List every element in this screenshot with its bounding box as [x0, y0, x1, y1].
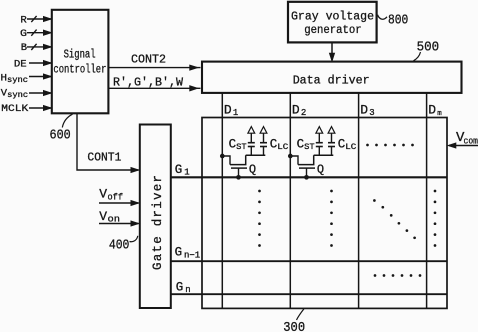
svg-text:Q: Q	[317, 163, 324, 177]
svg-text:C: C	[270, 137, 278, 151]
svg-text:Gate driver: Gate driver	[151, 175, 165, 270]
input label Von	[99, 209, 120, 225]
svg-text:DE: DE	[14, 59, 27, 71]
wire: pixel 2 source connection	[290, 156, 298, 165]
transistor Q (pixel 1) channel	[230, 155, 246, 164]
capacitor CLC (pixel 2)	[328, 133, 335, 155]
wire: data line D3	[358, 93, 360, 308]
svg-text:C: C	[297, 137, 305, 151]
label Dm	[428, 103, 442, 119]
label D3	[360, 103, 374, 119]
wire CONT1: signal controller to gate driver	[77, 114, 139, 173]
block: gray voltage generator U800	[288, 2, 377, 43]
transistor Q (pixel 2) gate electrode	[299, 167, 315, 169]
svg-text:G: G	[175, 246, 183, 260]
ellipsis: vertical dots column right of Dm	[434, 190, 437, 247]
ellipsis: vertical dots column 2	[330, 190, 333, 247]
label D1	[224, 103, 238, 119]
svg-text:LC: LC	[277, 142, 288, 152]
wire: pixel 2 storage bus	[314, 154, 334, 156]
wire: Vcom arrow into panel	[449, 143, 478, 147]
label CST (pixel 1)	[229, 137, 247, 152]
common electrode arrow above CST (pixel 2)	[316, 127, 323, 134]
svg-text:G: G	[175, 163, 183, 177]
wire: G input arrow into signal controller	[27, 31, 51, 35]
svg-text:800: 800	[388, 14, 408, 29]
svg-text:D: D	[292, 103, 300, 118]
wire: Hsync input arrow into signal controller	[29, 74, 51, 78]
label 400 with leader to gate driver	[109, 236, 138, 254]
block: LCD panel 300	[202, 118, 447, 309]
svg-text:C: C	[229, 137, 237, 151]
transistor Q (pixel 1) gate electrode	[231, 167, 247, 169]
wire: DE input arrow into signal controller	[29, 61, 51, 65]
svg-text:CONT2: CONT2	[131, 53, 166, 67]
svg-text:ST: ST	[236, 142, 247, 152]
wire CONT2: signal controller to data driver	[109, 53, 201, 70]
label CLC (pixel 2)	[338, 137, 357, 152]
wire: pixel 1 source connection	[222, 156, 230, 165]
wire: gray voltage generator to data driver	[330, 43, 334, 61]
capacitor CLC (pixel 1)	[260, 133, 267, 155]
svg-text:3: 3	[369, 108, 374, 118]
label 600 with leader to signal controller	[50, 114, 73, 143]
svg-text:LC: LC	[345, 142, 356, 152]
wire: pixel 2 gate lead to gate line	[306, 168, 308, 177]
label Gn	[176, 281, 191, 296]
wire: Von arrow into gate driver	[99, 221, 139, 225]
wire: MCLK input arrow into signal controller	[29, 106, 51, 110]
common electrode arrow above CLC (pixel 2)	[328, 127, 335, 134]
bus slash on B input	[31, 44, 36, 50]
wire: B input arrow into signal controller	[27, 45, 51, 49]
svg-text:D: D	[224, 103, 232, 118]
wire: pixel 1 storage bus	[246, 154, 266, 156]
label G1	[175, 163, 190, 178]
label 300 with leader to panel	[283, 309, 305, 332]
wire: gate line G1	[171, 176, 447, 178]
svg-text:R: R	[20, 14, 27, 26]
node: pixel 1 source junction on D1	[220, 154, 225, 159]
svg-text:sync: sync	[7, 91, 28, 100]
svg-text:R',G',B',W: R',G',B',W	[113, 76, 184, 90]
label Gn-1	[175, 246, 201, 261]
block: gate driver U400	[140, 125, 171, 309]
svg-text:400: 400	[109, 239, 129, 254]
bus slash on R input	[31, 16, 36, 22]
svg-text:n−1: n−1	[184, 250, 200, 260]
label 500 with leader to data driver	[414, 41, 440, 61]
svg-text:Q: Q	[249, 163, 256, 177]
svg-text:controller: controller	[53, 62, 106, 76]
svg-text:Gray voltage: Gray voltage	[291, 10, 374, 24]
capacitor CST (pixel 1)	[248, 133, 255, 155]
node: pixel 2 source junction on D2	[288, 154, 293, 159]
svg-text:sync: sync	[7, 76, 28, 85]
wire: data line D2	[289, 93, 291, 308]
svg-text:D: D	[360, 103, 368, 118]
wire: Vsync input arrow into signal controller	[29, 91, 51, 95]
svg-text:G: G	[20, 28, 27, 40]
wire: pixel 1 gate lead to gate line	[238, 168, 240, 177]
svg-text:V: V	[99, 187, 107, 202]
wire: gate line Gn-1	[171, 260, 447, 262]
ellipsis: vertical dots column 1	[258, 190, 261, 247]
svg-text:D: D	[428, 103, 436, 118]
capacitor CST (pixel 2)	[316, 133, 323, 155]
svg-text:off: off	[108, 192, 124, 202]
common electrode arrow above CST (pixel 1)	[248, 127, 255, 134]
ellipsis: diagonal dots between D3 and Dm	[373, 199, 416, 239]
svg-text:2: 2	[301, 108, 306, 118]
wire: Voff arrow into gate driver	[99, 201, 139, 205]
svg-text:Signal: Signal	[64, 48, 96, 62]
label ~800 with tilde leader	[378, 14, 409, 29]
svg-text:n: n	[185, 285, 190, 295]
ellipsis: pixel row dots between D3 and Dm	[366, 144, 414, 147]
svg-text:generator: generator	[304, 23, 362, 37]
wire: data line D1	[221, 93, 223, 308]
svg-text:ST: ST	[304, 142, 315, 152]
wire: data line Dm	[426, 93, 428, 308]
common electrode arrow above CLC (pixel 1)	[260, 127, 267, 134]
svg-text:m: m	[437, 110, 442, 118]
label Vcom	[456, 130, 478, 147]
svg-text:300: 300	[283, 321, 305, 332]
ellipsis: bottom row dots near Gn	[374, 274, 422, 277]
label D2	[292, 103, 306, 119]
wire: gate line Gn	[171, 293, 447, 295]
node: pixel 2 gate junction on G1	[304, 175, 309, 180]
svg-text:G: G	[176, 281, 184, 295]
svg-text:B: B	[21, 42, 27, 54]
input label Voff	[99, 187, 123, 203]
block: signal controller U600	[52, 10, 109, 114]
label CLC (pixel 1)	[270, 137, 289, 152]
svg-text:600: 600	[50, 129, 71, 144]
node: pixel 1 gate junction on G1	[236, 175, 241, 180]
bus slash on G input	[31, 30, 36, 36]
svg-text:Data driver: Data driver	[293, 73, 370, 87]
svg-text:1: 1	[233, 108, 238, 118]
svg-text:C: C	[338, 137, 346, 151]
transistor Q (pixel 2) channel	[298, 155, 314, 164]
svg-text:V: V	[99, 209, 107, 224]
label CST (pixel 2)	[297, 137, 315, 152]
wire R',G',B',W: signal controller to data driver	[109, 76, 201, 91]
svg-text:CONT1: CONT1	[87, 151, 121, 165]
svg-text:1: 1	[184, 168, 189, 178]
wire: R input arrow into signal controller	[27, 17, 51, 21]
svg-text:MCLK: MCLK	[1, 103, 29, 115]
block: data driver U500	[202, 62, 462, 93]
